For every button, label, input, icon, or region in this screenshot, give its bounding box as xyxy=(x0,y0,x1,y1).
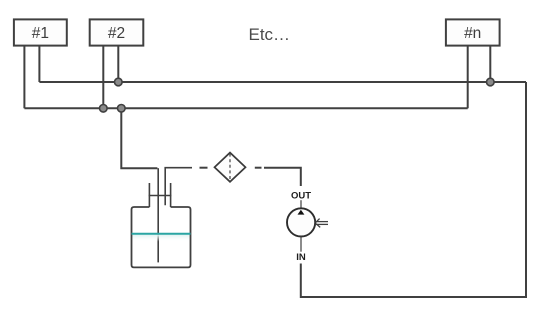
wire lower bus xyxy=(24,107,467,109)
tank body xyxy=(132,207,191,267)
svg-text:OUT: OUT xyxy=(291,191,311,202)
wire box #2 right drop to upper bus xyxy=(117,46,119,82)
filter element dashed line xyxy=(229,154,231,181)
wire filter to pump OUT xyxy=(264,168,301,186)
wire supply drop from lower bus to tank return pipe xyxy=(121,112,157,168)
junction dot on lower bus at box #2 xyxy=(100,105,108,113)
tank fluid fade xyxy=(133,235,190,242)
svg-text:Etc…: Etc… xyxy=(249,25,291,44)
tank breather right wall xyxy=(170,183,172,207)
junction dot on lower bus at supply drop xyxy=(118,105,126,113)
junction dot on upper bus at box #n xyxy=(487,78,495,86)
tank breather cross line xyxy=(149,195,172,197)
svg-text:#1: #1 xyxy=(32,25,49,42)
pump P1 circle xyxy=(287,208,315,236)
wire box #2 left drop to lower bus xyxy=(102,46,104,109)
pump shaft lines xyxy=(316,222,328,225)
svg-text:IN: IN xyxy=(296,252,306,263)
dash filter right xyxy=(255,167,262,169)
pump out port stub xyxy=(300,200,302,208)
box #2 xyxy=(90,19,144,45)
wire box #n right drop to upper bus xyxy=(489,46,491,82)
svg-text:#2: #2 xyxy=(108,25,125,42)
box #n xyxy=(446,19,500,45)
wire upper bus right end down to pump return xyxy=(301,82,526,297)
tank return pipe xyxy=(157,168,159,262)
wire box #1 left drop to lower bus xyxy=(23,46,25,109)
wire box #1 right drop to upper bus xyxy=(38,46,40,82)
pump flow triangle xyxy=(298,210,305,215)
dash filter left xyxy=(200,167,208,169)
box #1 xyxy=(14,19,67,45)
junction dot on upper bus at box #2 xyxy=(115,78,123,86)
tank suction pipe xyxy=(165,168,192,206)
wire box #n left drop to lower bus xyxy=(467,46,469,109)
pump in port stub xyxy=(300,236,302,251)
svg-text:#n: #n xyxy=(464,25,481,42)
wire upper bus xyxy=(39,81,526,83)
tank fluid level line xyxy=(132,233,191,235)
tank breather left wall xyxy=(148,183,150,207)
filter body xyxy=(215,153,246,182)
pump shaft arrow xyxy=(316,219,321,228)
